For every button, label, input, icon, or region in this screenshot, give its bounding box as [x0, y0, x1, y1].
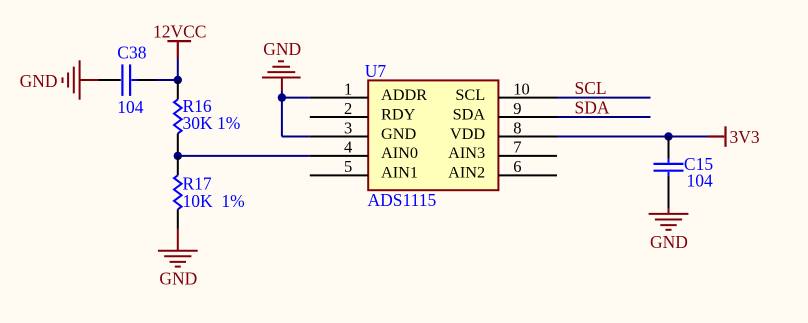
svg-text:AIN0: AIN0 [381, 143, 418, 162]
svg-text:10: 10 [513, 79, 530, 98]
svg-text:5: 5 [344, 157, 352, 176]
capacitor C15 [654, 137, 684, 209]
svg-text:ADDR: ADDR [381, 85, 427, 104]
capacitor C38 [99, 64, 156, 96]
svg-text:3V3: 3V3 [730, 127, 760, 147]
pin 9 SDA stub [498, 116, 557, 118]
svg-text:30K 1%: 30K 1% [183, 113, 241, 133]
svg-text:10K 1%: 10K 1% [183, 191, 245, 211]
pin 5 AIN1 stub [310, 174, 368, 176]
svg-text:104: 104 [117, 97, 144, 117]
svg-text:SCL: SCL [455, 85, 485, 104]
wire SCL [557, 97, 651, 99]
wire to pin ADDR [282, 97, 310, 99]
svg-text:7: 7 [513, 138, 521, 157]
svg-text:6: 6 [513, 157, 521, 176]
pin 6 AIN2 stub [498, 174, 557, 176]
svg-text:2: 2 [344, 99, 352, 118]
svg-text:SDA: SDA [575, 98, 610, 118]
pin 4 AIN0 stub [310, 155, 368, 157]
svg-text:12VCC: 12VCC [153, 22, 206, 42]
ground symbol GND (bottom left) [158, 229, 198, 267]
power port 12VCC [167, 41, 191, 58]
pin 3 GND stub [310, 136, 368, 138]
wire 12VCC down to node A [177, 58, 179, 80]
svg-text:4: 4 [344, 138, 352, 157]
svg-text:RDY: RDY [381, 104, 416, 123]
wire to pin GND [282, 136, 310, 138]
wire VDD to 3V3 [557, 136, 708, 138]
ground symbol GND (left, rotated, power ground) [63, 60, 100, 99]
svg-text:104: 104 [687, 170, 714, 190]
svg-text:9: 9 [513, 99, 521, 118]
node C junction [278, 93, 286, 101]
resistor R16 [174, 80, 182, 156]
resistor R17 [174, 156, 182, 229]
svg-text:VDD: VDD [450, 124, 486, 143]
ground symbol GND (top middle, flipped) [262, 61, 301, 91]
node D junction [664, 132, 672, 140]
svg-text:SDA: SDA [453, 104, 486, 123]
pin 10 SCL stub [498, 97, 557, 99]
svg-text:U7: U7 [365, 61, 387, 81]
node B junction [174, 152, 182, 160]
svg-text:GND: GND [20, 71, 58, 91]
svg-text:GND: GND [650, 232, 688, 252]
node A junction [174, 76, 182, 84]
pin 8 VDD stub [498, 136, 557, 138]
svg-text:GND: GND [159, 269, 197, 289]
svg-text:AIN1: AIN1 [381, 163, 418, 182]
svg-text:AIN2: AIN2 [448, 163, 485, 182]
wire SDA [557, 116, 651, 118]
svg-text:1: 1 [344, 79, 352, 98]
wire GND stem down to pin3 row [281, 91, 283, 137]
op-amp U7 body ADS1115 [368, 80, 498, 190]
svg-text:SCL: SCL [575, 78, 607, 98]
svg-text:AIN3: AIN3 [448, 143, 485, 162]
pin 7 AIN3 stub [498, 155, 557, 157]
svg-text:GND: GND [263, 39, 301, 59]
svg-text:3: 3 [344, 118, 352, 137]
pin 1 ADDR stub [310, 97, 368, 99]
pin 2 RDY stub [310, 116, 368, 118]
svg-text:GND: GND [381, 124, 417, 143]
wire C38 to node A [156, 79, 178, 81]
ground symbol GND (under C15) [649, 209, 689, 230]
wire node B to pin AIN0 [178, 155, 310, 157]
svg-text:C38: C38 [117, 43, 146, 63]
svg-text:8: 8 [513, 118, 521, 137]
svg-text:ADS1115: ADS1115 [368, 190, 437, 210]
power port 3V3 [708, 126, 726, 147]
